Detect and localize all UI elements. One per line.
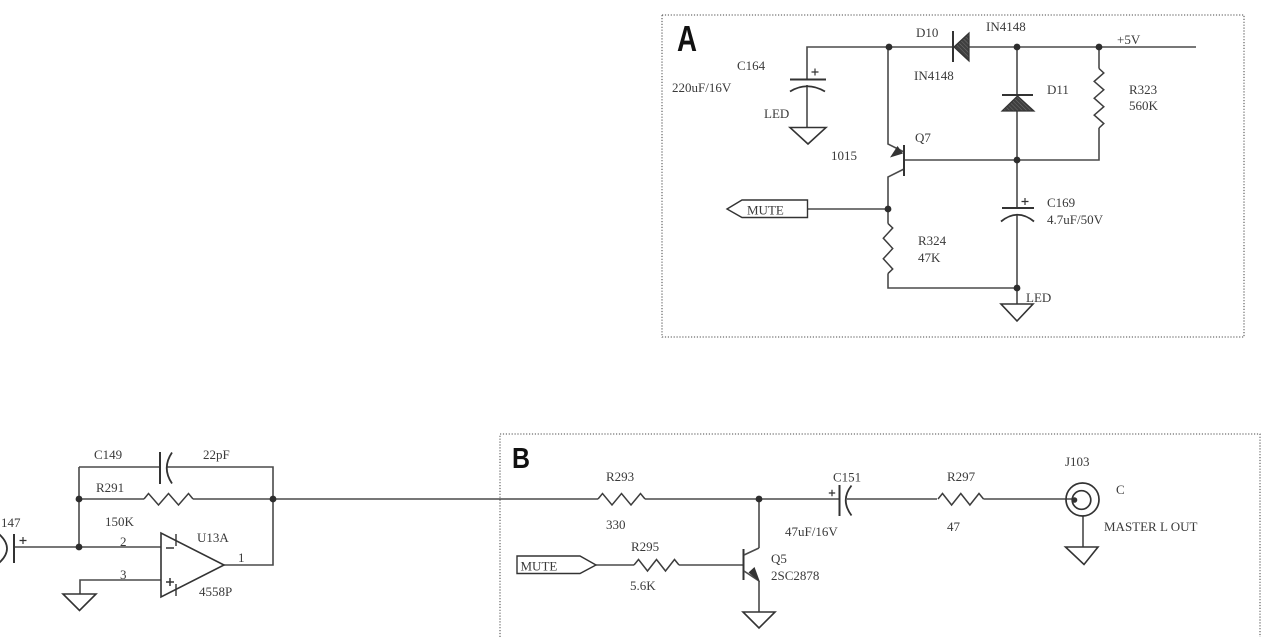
svg-text:2: 2 (120, 534, 127, 549)
svg-text:B: B (512, 443, 530, 475)
svg-text:1: 1 (238, 550, 245, 565)
svg-text:C151: C151 (833, 470, 861, 485)
svg-text:4.7uF/50V: 4.7uF/50V (1047, 212, 1104, 227)
svg-text:47: 47 (947, 519, 961, 534)
svg-text:R295: R295 (631, 539, 659, 554)
svg-text:R297: R297 (947, 469, 976, 484)
svg-text:2SC2878: 2SC2878 (771, 568, 819, 583)
svg-text:147: 147 (1, 515, 21, 530)
svg-text:1015: 1015 (831, 148, 857, 163)
svg-text:3: 3 (120, 567, 127, 582)
svg-text:Q5: Q5 (771, 551, 787, 566)
svg-text:LED: LED (1026, 290, 1051, 305)
svg-text:MUTE: MUTE (747, 203, 784, 218)
svg-text:A: A (677, 18, 697, 59)
svg-text:D11: D11 (1047, 82, 1069, 97)
svg-text:MUTE: MUTE (521, 559, 558, 574)
svg-text:IN4148: IN4148 (914, 68, 954, 83)
svg-text:C164: C164 (737, 58, 766, 73)
svg-text:C169: C169 (1047, 195, 1075, 210)
svg-text:C: C (1116, 482, 1125, 497)
svg-text:MASTER L OUT: MASTER L OUT (1104, 519, 1197, 534)
svg-text:R323: R323 (1129, 82, 1157, 97)
svg-text:150K: 150K (105, 514, 135, 529)
svg-text:R291: R291 (96, 480, 124, 495)
svg-text:LED: LED (764, 106, 789, 121)
svg-text:22pF: 22pF (203, 447, 230, 462)
svg-text:IN4148: IN4148 (986, 19, 1026, 34)
svg-text:J103: J103 (1065, 454, 1090, 469)
svg-text:47K: 47K (918, 250, 941, 265)
svg-text:C149: C149 (94, 447, 122, 462)
svg-text:47uF/16V: 47uF/16V (785, 524, 838, 539)
svg-text:Q7: Q7 (915, 130, 931, 145)
svg-text:560K: 560K (1129, 98, 1159, 113)
svg-text:5.6K: 5.6K (630, 578, 656, 593)
svg-text:+5V: +5V (1117, 32, 1141, 47)
svg-text:R324: R324 (918, 233, 947, 248)
svg-text:D10: D10 (916, 25, 938, 40)
svg-text:220uF/16V: 220uF/16V (672, 80, 732, 95)
svg-text:U13A: U13A (197, 530, 229, 545)
svg-text:4558P: 4558P (199, 584, 232, 599)
svg-text:R293: R293 (606, 469, 634, 484)
svg-text:330: 330 (606, 517, 626, 532)
